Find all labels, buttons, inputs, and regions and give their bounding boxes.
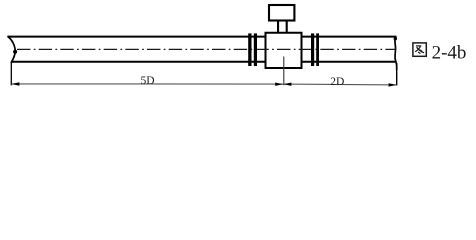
arrowhead 2D left (points left) <box>283 83 291 86</box>
wire pipe bottom line right segment <box>302 61 396 63</box>
transmitter stem left line <box>277 21 279 33</box>
flange pair right of meter <box>311 33 319 66</box>
svg-text:2D: 2D <box>330 76 344 88</box>
flange pair left of meter <box>248 33 257 66</box>
extension line right end <box>396 63 398 86</box>
arrowhead at left end (points left) <box>11 82 19 85</box>
figure caption character 图 <box>413 43 426 56</box>
svg-text:2-4b: 2-4b <box>432 43 467 64</box>
extension line left end <box>10 63 12 86</box>
wire pipe bottom line left segment <box>12 61 266 63</box>
arrowhead at right end (points right) <box>389 83 397 86</box>
svg-text:5D: 5D <box>141 75 155 87</box>
dimension line 2D <box>283 83 396 86</box>
wire pipe top line left segment <box>8 36 266 38</box>
extension line meter center <box>283 57 285 86</box>
centerline pipe axis (dash-dot) <box>17 48 397 50</box>
arrowhead 5D right (points right) <box>275 83 283 86</box>
dimension line 5D <box>11 83 283 85</box>
flowmeter body <box>266 33 302 68</box>
pipe break symbol left <box>8 36 18 63</box>
transmitter head box <box>269 5 294 21</box>
wire pipe top line right segment <box>302 36 397 38</box>
transmitter stem right line <box>286 21 288 33</box>
pipe break symbol right <box>394 37 397 70</box>
